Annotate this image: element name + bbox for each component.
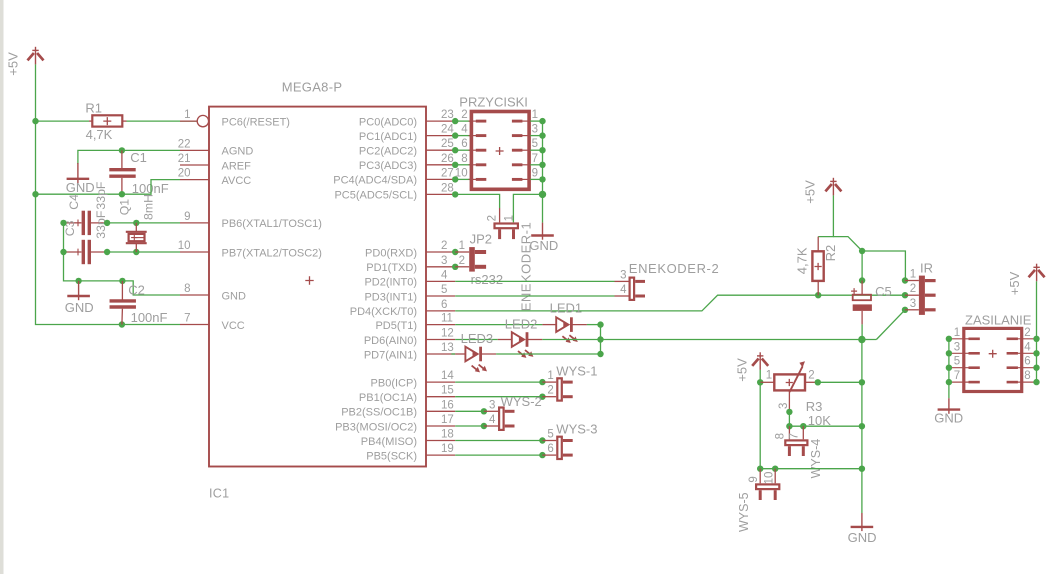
- svg-text:6: 6: [547, 443, 553, 455]
- PRZYCISKI right pin line 7: [522, 164, 530, 166]
- ENEKODER-2 pin 4 lead: [615, 295, 629, 297]
- svg-text:2: 2: [808, 369, 814, 381]
- junction C1 top on AGND wire: [119, 147, 125, 153]
- capacitor C2 plates: [110, 301, 136, 307]
- junction at IR pin 2: [902, 292, 908, 298]
- ZASILANIE right pin lead 2: [1017, 338, 1037, 340]
- junction at WYS-1 pin 1: [539, 379, 545, 385]
- crystal Q1 top lead: [135, 223, 137, 231]
- junction C4 left: [60, 220, 66, 226]
- svg-text:6: 6: [441, 299, 447, 311]
- ZASILANIE left pin bar 5: [969, 366, 980, 369]
- svg-text:+5V: +5V: [802, 180, 817, 204]
- svg-text:R2: R2: [823, 245, 838, 262]
- svg-text:2: 2: [441, 240, 447, 252]
- svg-text:WYS-1: WYS-1: [556, 364, 597, 379]
- svg-text:20: 20: [178, 168, 191, 180]
- IC1 right pin stub 27 (PC4(ADC4/SDA)): [426, 178, 455, 180]
- connector PRZYCISKI body: [471, 112, 529, 190]
- wire wiper to WYS-4 row: [788, 412, 790, 426]
- crystal Q1 bottom plate: [126, 242, 147, 244]
- IC1 right pin stub 18 (PB4(MISO)): [426, 440, 455, 442]
- svg-text:1: 1: [459, 240, 465, 252]
- connector WYS-5 body: [756, 484, 779, 500]
- svg-text:22: 22: [178, 138, 191, 150]
- svg-text:13: 13: [441, 342, 454, 354]
- svg-text:5: 5: [441, 284, 447, 296]
- wire IC pin 18 (MISO) to WYS-3 pin 5: [455, 440, 542, 442]
- capacitor C3 plates: [83, 240, 89, 264]
- wire PRZYCISKI pin 5 to right column: [530, 149, 542, 151]
- junction at IR pin 1: [902, 277, 908, 283]
- svg-text:PD0(RXD): PD0(RXD): [365, 247, 417, 259]
- junction left column pin 3: [946, 350, 952, 356]
- +5V supply symbol (above R2): [825, 178, 841, 196]
- svg-text:PB6(XTAL1/TOSC1): PB6(XTAL1/TOSC1): [222, 218, 322, 230]
- junction at IC pin 25 wire: [452, 147, 458, 153]
- ZASILANIE left pin lead 1: [949, 338, 970, 340]
- svg-text:26: 26: [441, 153, 454, 165]
- svg-text:WYS-3: WYS-3: [556, 422, 597, 437]
- connector ENEKODER-2 body: [630, 278, 645, 300]
- ground symbol GND (AGND net): [67, 163, 90, 183]
- junction at WYS-3 pin 6: [539, 452, 545, 458]
- wire PRZYCISKI right column vertical: [542, 121, 544, 194]
- potentiometer R3 body: [774, 374, 805, 390]
- svg-text:rs232: rs232: [471, 272, 504, 287]
- svg-text:23: 23: [441, 109, 454, 121]
- LED2 cathode lead: [527, 339, 543, 341]
- PRZYCISKI left pin line 10: [469, 178, 477, 180]
- R3 pin 2 lead: [805, 381, 818, 383]
- svg-text:1: 1: [504, 215, 516, 221]
- junction at WYS-1 pin 2: [539, 394, 545, 400]
- IC1 right pin stub 17 (PB3(MOSI/OC2)): [426, 425, 455, 427]
- IC1 right pin stub 5 (PD3(INT1)): [426, 295, 455, 297]
- junction right vertical at WYS-5 row: [859, 466, 865, 472]
- wire +5V node down to capacitor C5: [861, 251, 863, 281]
- WYS-3 pin 6 lead: [542, 454, 556, 456]
- IC1 left pin stub 9 (PB6(XTAL1/TOSC1)): [180, 222, 209, 224]
- left page margin strip: [0, 0, 4, 574]
- IC1 right pin stub 13 (PD7(AIN1)): [426, 353, 455, 355]
- wire IC pin to PRZYCISKI pin 6: [455, 149, 470, 151]
- junction right column row 9: [539, 176, 545, 182]
- wire PRZYCISKI pin 7 to right column: [530, 164, 542, 166]
- R3 pin 1 lead: [760, 381, 774, 383]
- svg-text:9: 9: [532, 167, 538, 179]
- svg-text:PB4(MISO): PB4(MISO): [361, 436, 417, 448]
- R3 pin 3 wiper lead: [788, 390, 790, 412]
- LED2 anode lead: [498, 339, 512, 341]
- resistor R2 body: [812, 251, 823, 281]
- svg-text:GND: GND: [222, 290, 247, 302]
- crystal Q1 origin cross: [131, 234, 137, 240]
- junction right column pin 6: [1033, 365, 1039, 371]
- junction left column pin 1: [946, 336, 952, 342]
- wire IC pin 12 (AIN0) to LED2 anode: [455, 339, 498, 341]
- IR pin 1 lead: [905, 280, 919, 282]
- svg-text:PB3(MOSI/OC2): PB3(MOSI/OC2): [335, 421, 417, 433]
- svg-text:9: 9: [184, 211, 190, 223]
- svg-text:5: 5: [532, 138, 538, 150]
- connector ENEKODER-1 body: [495, 224, 518, 229]
- svg-text:7: 7: [532, 153, 538, 165]
- resistor R2 origin cross: [815, 263, 822, 270]
- connector ZASILANIE body: [964, 328, 1022, 391]
- wire LED cathode column: [600, 325, 602, 354]
- svg-text:2: 2: [910, 283, 916, 295]
- svg-text:PC1(ADC1): PC1(ADC1): [359, 131, 417, 143]
- svg-text:IR: IR: [920, 260, 933, 275]
- svg-text:12: 12: [441, 328, 454, 340]
- svg-text:JP2: JP2: [470, 232, 492, 247]
- svg-text:16: 16: [441, 399, 454, 411]
- svg-text:18: 18: [441, 429, 454, 441]
- wire IC pin to PRZYCISKI pin 2: [455, 120, 470, 122]
- wire IC pin 16 to WYS-2 pin 3: [455, 410, 484, 412]
- capacitor C3 right lead: [91, 251, 107, 253]
- wire +5V down to R3 pin 1: [759, 370, 761, 382]
- +5V supply symbol (above R3): [752, 352, 768, 370]
- crystal Q1 top plate: [126, 231, 147, 233]
- junction at JP2 pin 1: [452, 249, 458, 255]
- PRZYCISKI left pin line 2: [469, 120, 477, 122]
- svg-text:PB0(ICP): PB0(ICP): [371, 377, 417, 389]
- IC1 right pin stub 23 (PC0(ADC0)): [426, 120, 455, 122]
- svg-text:4: 4: [461, 124, 468, 136]
- svg-text:VCC: VCC: [222, 320, 245, 332]
- svg-text:4: 4: [441, 269, 448, 281]
- junction right vertical at R3 row: [859, 379, 865, 385]
- svg-text:5: 5: [547, 429, 553, 441]
- wire IC pin 6 (XCK/T0) right with 45-degree jog to R2 bottom and IR pin 2: [455, 295, 905, 311]
- svg-text:14: 14: [441, 370, 454, 382]
- junction WYS-5 pin 10: [772, 466, 778, 472]
- LED3 anode lead: [455, 353, 465, 355]
- PRZYCISKI left pin bar 6: [476, 149, 487, 152]
- svg-text:19: 19: [441, 443, 454, 455]
- svg-text:15: 15: [441, 385, 454, 397]
- junction LED column row 12: [597, 336, 603, 342]
- wire ZASILANIE left column to ground: [948, 339, 950, 398]
- IC1 right pin stub 15 (PB1(OC1A)): [426, 396, 455, 398]
- svg-text:24: 24: [441, 124, 454, 136]
- PRZYCISKI right pin bar 7: [512, 163, 523, 166]
- capacitor C3 left lead: [64, 251, 82, 253]
- junction C3 right: [104, 249, 110, 255]
- svg-text:Q1: Q1: [118, 199, 132, 216]
- svg-text:+5V: +5V: [6, 52, 21, 76]
- svg-text:28: 28: [441, 182, 454, 194]
- junction at IR pin 3: [902, 307, 908, 313]
- IC1 left pin stub 8 (GND): [180, 294, 209, 296]
- capacitor C1 plates: [109, 170, 135, 177]
- junction at WYS-3 pin 5: [539, 437, 545, 443]
- svg-text:3: 3: [910, 298, 916, 310]
- svg-text:4,7K: 4,7K: [795, 247, 810, 274]
- svg-text:IC1: IC1: [209, 487, 229, 501]
- ZASILANIE right pin bar 4: [1007, 352, 1018, 355]
- junction Q1 top: [133, 220, 139, 226]
- IC1 pin 1 inversion bubble (PC6/RESET): [197, 115, 208, 126]
- wire +5V rail from top-left arrow down and to IC VCC pin 7: [36, 64, 181, 324]
- IC1 right pin stub 3 (PD1(TXD)): [426, 266, 455, 268]
- junction WYS-4 pin 8: [786, 423, 792, 429]
- svg-text:6: 6: [461, 138, 467, 150]
- IC1 right pin stub 16 (PB2(SS/OC1B)): [426, 410, 455, 412]
- capacitor C1 top lead: [121, 150, 123, 168]
- wire right vertical C5/WYS common down to ground: [861, 340, 863, 514]
- PRZYCISKI right pin bar 9: [512, 178, 523, 181]
- junction Q1 bottom: [133, 249, 139, 255]
- junction LED common / C5 / IR branch: [858, 336, 865, 343]
- svg-text:1: 1: [954, 327, 960, 339]
- ZASILANIE right pin bar 8: [1007, 381, 1018, 384]
- svg-text:8: 8: [184, 283, 190, 295]
- svg-text:PC0(ADC0): PC0(ADC0): [359, 116, 417, 128]
- svg-text:LED1: LED1: [550, 301, 583, 316]
- wire IC pin 14 (ICP) to WYS-1 pin 1: [455, 381, 542, 383]
- potentiometer R3 wiper arrow: [790, 366, 803, 392]
- IC1 right pin stub 11 (PD5(T1)): [426, 324, 455, 326]
- svg-text:PD6(AIN0): PD6(AIN0): [364, 335, 417, 347]
- svg-text:C2: C2: [128, 283, 145, 298]
- PRZYCISKI left pin bar 10: [476, 178, 487, 181]
- IC1 left pin stub 20 (AVCC): [180, 179, 209, 181]
- svg-text:PB2(SS/OC1B): PB2(SS/OC1B): [341, 407, 417, 419]
- svg-text:AREF: AREF: [222, 160, 252, 172]
- crystal Q1 inner tick: [134, 237, 144, 239]
- svg-text:7: 7: [789, 433, 801, 439]
- wire IC pin to PRZYCISKI pin 8: [455, 164, 470, 166]
- junction right column row 3: [539, 132, 545, 138]
- svg-text:GND: GND: [529, 238, 558, 253]
- junction right column row 1: [539, 118, 545, 124]
- svg-text:6: 6: [1024, 356, 1030, 368]
- ZASILANIE right pin bar 2: [1007, 338, 1018, 341]
- IC1 left pin stub 10 (PB7(XTAL2/TOSC2)): [180, 251, 209, 253]
- wire LED3 cathode to LED column: [496, 353, 600, 355]
- svg-text:C4: C4: [67, 194, 81, 210]
- svg-text:27: 27: [441, 167, 454, 179]
- capacitor C5 plus mark: [851, 288, 857, 294]
- PRZYCISKI right pin line 5: [522, 149, 530, 151]
- svg-text:MEGA8-P: MEGA8-P: [282, 80, 343, 95]
- connector JP2 body: [469, 247, 475, 272]
- connector WYS-1 body: [557, 378, 572, 400]
- crystal Q1 bottom lead: [135, 244, 137, 252]
- WYS-4 pin 7 lead: [802, 426, 804, 439]
- junction C1 bottom on AVCC wire: [119, 191, 125, 197]
- ZASILANIE left pin lead 7: [949, 381, 970, 383]
- junction at IC pin 28 wire: [452, 191, 458, 197]
- svg-text:WYS-4: WYS-4: [809, 439, 823, 479]
- wire LED1 cathode to LED column: [587, 324, 601, 326]
- ZASILANIE left pin bar 7: [969, 381, 980, 384]
- PRZYCISKI right pin bar 5: [512, 149, 523, 152]
- svg-text:R1: R1: [85, 100, 102, 115]
- svg-text:8: 8: [461, 153, 467, 165]
- IC1 right pin stub 6 (PD4(XCK/T0)): [426, 310, 455, 312]
- capacitor C2 bottom lead: [121, 309, 124, 325]
- svg-text:PD7(AIN1): PD7(AIN1): [364, 349, 417, 361]
- +5V supply symbol (top left): [28, 47, 44, 65]
- connector WYS-3 body: [557, 437, 572, 459]
- junction at R3 pin 2: [815, 379, 821, 385]
- wire IC pin 11 (T1) to LED1 anode: [455, 324, 542, 326]
- PRZYCISKI left pin bar 8: [476, 163, 487, 166]
- svg-text:PD1(TXD): PD1(TXD): [366, 262, 417, 274]
- ENEKODER-2 pin 3 lead: [615, 280, 629, 282]
- svg-text:1: 1: [766, 369, 772, 381]
- PRZYCISKI left pin line 4: [469, 135, 477, 137]
- WYS-1 pin 1 lead: [542, 381, 556, 383]
- svg-text:PC3(ADC3): PC3(ADC3): [359, 160, 417, 172]
- svg-text:10: 10: [178, 240, 191, 252]
- junction at wiper lead end: [786, 409, 792, 415]
- junction C2 bottom on VCC wire: [119, 321, 125, 327]
- connector ZASILANIE origin cross: [989, 350, 997, 358]
- svg-text:9: 9: [748, 476, 760, 482]
- wire WYS-5 row to right vertical: [760, 468, 862, 470]
- resistor R2 top lead: [817, 237, 819, 252]
- wire +5V branch diagonal to C5/IR node: [833, 237, 905, 281]
- IC1 left pin stub 7 (VCC): [180, 324, 209, 326]
- WYS-4 pin 8 lead: [788, 426, 790, 439]
- svg-text:PC2(ADC2): PC2(ADC2): [359, 146, 417, 158]
- LED LED1: [556, 317, 578, 343]
- svg-text:2: 2: [461, 109, 467, 121]
- svg-text:1: 1: [184, 109, 190, 121]
- wire IC pin 13 (AIN1) to LED3 anode: [451, 353, 455, 355]
- wire PC5 net from IC pin 28 to ENEKODER-1 pin 2: [455, 194, 499, 208]
- svg-text:2: 2: [486, 215, 498, 221]
- IC1 right pin stub 26 (PC3(ADC3)): [426, 164, 455, 166]
- svg-text:PD5(T1): PD5(T1): [375, 320, 417, 332]
- svg-text:GND: GND: [848, 530, 877, 545]
- PRZYCISKI right pin line 3: [522, 135, 530, 137]
- svg-text:3: 3: [954, 341, 960, 353]
- LED3 cathode lead: [480, 353, 496, 355]
- svg-text:3: 3: [778, 403, 790, 409]
- resistor R1 left lead: [89, 120, 92, 122]
- svg-text:PC6(/RESET): PC6(/RESET): [222, 116, 290, 128]
- svg-text:PD2(INT0): PD2(INT0): [364, 277, 417, 289]
- junction at IC pin 26 wire: [452, 162, 458, 168]
- junction +5V branch at C5 column: [859, 248, 865, 254]
- svg-text:100nF: 100nF: [131, 310, 168, 325]
- resistor R1 right lead: [122, 120, 126, 122]
- svg-text:ENEKODER-2: ENEKODER-2: [629, 261, 720, 276]
- svg-text:PB1(OC1A): PB1(OC1A): [359, 392, 417, 404]
- junction GND-symbol lead on xtal ground wire: [75, 278, 81, 284]
- wire PRZYCISKI pin 9 to right column: [530, 178, 542, 180]
- resistor R1 body: [92, 115, 122, 126]
- resistor R2 bottom lead: [817, 281, 819, 295]
- svg-text:25: 25: [441, 138, 454, 150]
- svg-text:8: 8: [1024, 370, 1030, 382]
- IC1 origin cross: [305, 276, 313, 284]
- connector PRZYCISKI origin cross: [496, 147, 504, 155]
- svg-text:PD4(XCK/T0): PD4(XCK/T0): [350, 306, 417, 318]
- wire LED2 cathode to LED column: [542, 339, 600, 341]
- junction right column pin 8: [1033, 379, 1039, 385]
- junction at C5 positive lead: [859, 277, 865, 283]
- svg-text:8mH: 8mH: [141, 194, 155, 220]
- LED LED2: [512, 332, 534, 358]
- capacitor C3 origin cross: [75, 249, 82, 256]
- wire IC pin to PRZYCISKI pin 10: [455, 178, 470, 180]
- svg-text:2: 2: [459, 255, 465, 267]
- IC1 right pin stub 2 (PD0(RXD)): [426, 251, 455, 253]
- IR pin 3 lead: [905, 309, 919, 311]
- ZASILANIE right pin lead 4: [1017, 352, 1037, 354]
- svg-text:GND: GND: [66, 180, 95, 195]
- IC1 right pin stub 28 (PC5(ADC5/SCL)): [426, 193, 455, 195]
- wire IC pin 4 (INT0) to ENEKODER-2 pin 3: [455, 280, 614, 282]
- ground symbol GND (bottom right): [851, 513, 874, 531]
- PRZYCISKI left pin bar 4: [476, 134, 487, 137]
- svg-text:3: 3: [620, 269, 626, 281]
- svg-text:PC4(ADC4/SDA): PC4(ADC4/SDA): [333, 175, 417, 187]
- svg-text:PRZYCISKI: PRZYCISKI: [459, 94, 528, 109]
- svg-text:33pF: 33pF: [94, 181, 108, 210]
- wire R1 to IC pin 1 (PC6/RESET): [127, 120, 198, 122]
- junction LED column row 11: [597, 321, 603, 327]
- capacitor C4 plates: [83, 211, 89, 235]
- capacitor C5 positive lead: [861, 281, 863, 295]
- svg-text:R3: R3: [806, 399, 823, 414]
- ZASILANIE right pin lead 8: [1017, 381, 1037, 383]
- WYS-1 pin 2 lead: [542, 396, 556, 398]
- svg-text:AVCC: AVCC: [222, 175, 252, 187]
- junction at IC pin 27 wire: [452, 176, 458, 182]
- capacitor C4 left lead: [64, 222, 82, 224]
- IC1 right pin stub 19 (PB5(SCK)): [426, 454, 455, 456]
- capacitor C4 origin cross: [75, 220, 82, 227]
- ground symbol GND (ZASILANIE): [938, 398, 961, 414]
- junction left column pin 5: [946, 365, 952, 371]
- junction right column pin 2: [1033, 336, 1039, 342]
- svg-text:1: 1: [547, 370, 553, 382]
- ZASILANIE left pin lead 5: [949, 367, 970, 369]
- crystal Q1 body: [129, 234, 145, 241]
- capacitor C5 negative lead: [861, 311, 863, 325]
- wire LED common net to C5/IR area: [601, 339, 877, 341]
- junction at IC pin 24 wire: [452, 132, 458, 138]
- svg-text:PB7(XTAL2/TOSC2): PB7(XTAL2/TOSC2): [222, 247, 322, 259]
- IR pin 2 lead: [905, 294, 919, 296]
- wire PRZYCISKI pin 3 to right column: [530, 135, 542, 137]
- wire LED common diagonal up to IR pin 3: [876, 310, 905, 340]
- IC1 MEGA8-P body: [209, 107, 426, 467]
- wire IC pin 19 (SCK) to WYS-3 pin 6: [455, 454, 542, 456]
- svg-text:3: 3: [489, 399, 495, 411]
- ENEKODER-1 pin 2 lead: [499, 208, 501, 222]
- PRZYCISKI right pin bar 1: [512, 120, 523, 123]
- wire +5V column down to WYS-5 row: [759, 382, 761, 468]
- junction C3 left: [60, 249, 66, 255]
- svg-text:PD3(INT1): PD3(INT1): [364, 291, 417, 303]
- ground symbol GND (PRZYCISKI column): [531, 223, 554, 240]
- svg-text:PC5(ADC5/SCL): PC5(ADC5/SCL): [334, 190, 417, 202]
- junction WYS-5 pin 9: [757, 466, 763, 472]
- svg-text:GND: GND: [65, 300, 94, 315]
- svg-text:8: 8: [775, 433, 787, 439]
- svg-text:+5V: +5V: [1007, 271, 1022, 295]
- capacitor C5 positive plate: [853, 295, 871, 301]
